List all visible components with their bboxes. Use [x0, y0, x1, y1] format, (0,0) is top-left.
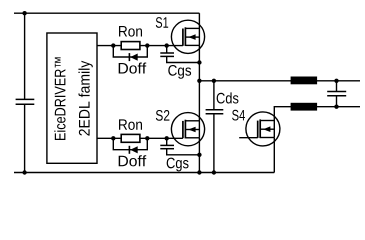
- label Doff upper: [119, 63, 147, 74]
- node Cds bottom at bottom rail: [212, 170, 216, 174]
- wire S2 source to bottom rail: [198, 138, 200, 173]
- wire S1 drain to top rail: [198, 13, 200, 28]
- node upper Ron right: [145, 43, 149, 47]
- wire upper Doff parallel loop: [113, 46, 147, 57]
- capacitor Cgs2 bottom plate: [160, 148, 174, 150]
- label Ron upper: [119, 26, 142, 37]
- inductor ferrite bead output upper: [291, 77, 318, 85]
- wire S2 drain from mid rail: [198, 81, 200, 121]
- label Doff lower: [119, 155, 147, 166]
- diode Doff upper: [129, 53, 137, 61]
- label Cds: [217, 92, 239, 103]
- node top rail / DC-link junction: [22, 11, 26, 15]
- wire S4 gate stub: [239, 137, 258, 139]
- capacitor output top plate: [327, 91, 346, 93]
- node output cap bottom: [334, 105, 338, 109]
- wire Cgs2 top stub: [166, 138, 168, 145]
- wire output cap lower stub: [336, 96, 338, 107]
- node upper Ron left: [111, 43, 115, 47]
- wire output cap upper stub: [336, 81, 338, 92]
- node bottom rail / DC-link junction: [22, 170, 26, 174]
- wire Cgs2 return to source: [167, 149, 200, 155]
- capacitor Cgs1 bottom plate: [160, 55, 174, 57]
- wire Cgs1 top stub: [166, 46, 168, 53]
- wire Cds branch upper: [213, 81, 215, 110]
- node lower Cgs tap: [165, 136, 169, 140]
- wire left DC-link branch lower: [24, 104, 26, 172]
- wire output lower rail: [291, 106, 360, 108]
- transistor S2 MOSFET: [171, 113, 204, 146]
- capacitor DC-link top plate: [16, 98, 35, 100]
- inductor ferrite bead output lower: [291, 103, 318, 111]
- transistor S1 MOSFET: [171, 20, 204, 53]
- wire mid rail (switch node): [199, 80, 360, 82]
- node Cgs1 return on S1 source: [197, 60, 201, 64]
- diode Doff lower: [129, 146, 137, 154]
- wire lower gate drive: [97, 137, 183, 139]
- capacitor Cds top plate: [206, 109, 224, 111]
- wire left DC-link branch upper: [24, 13, 26, 99]
- label S2: [156, 110, 170, 121]
- capacitor output bottom plate: [327, 95, 346, 97]
- resistor R-on upper: [121, 42, 140, 50]
- wire Cds branch lower: [213, 114, 215, 173]
- label Cgs lower: [167, 158, 189, 172]
- capacitor Cgs2 top plate: [160, 144, 174, 146]
- wire upper gate drive: [97, 45, 183, 47]
- transistor S4 MOSFET: [246, 112, 280, 146]
- node Cds top junction: [212, 79, 216, 83]
- node switch node at S1 source: [197, 79, 201, 83]
- label S4: [232, 110, 245, 121]
- capacitor DC-link bottom plate: [16, 103, 35, 105]
- wire bottom DC- rail: [14, 172, 274, 174]
- node output cap top: [334, 79, 338, 83]
- gate driver IC U1 EiceDRIVER box: [47, 33, 97, 163]
- label Cgs upper: [168, 65, 191, 79]
- wire top DC+ rail: [14, 12, 199, 14]
- wire S1 source to mid node: [198, 45, 200, 80]
- node upper Cgs tap: [165, 43, 169, 47]
- node S2 source at bottom rail: [197, 170, 201, 174]
- wire S4 source to bottom rail: [273, 138, 275, 173]
- label S1: [156, 17, 168, 28]
- capacitor Cds bottom plate: [206, 113, 224, 115]
- label U1 EiceDRIVER 2EDL family: [54, 57, 65, 140]
- wire S4 drain to output rail: [274, 107, 290, 121]
- wire lower Doff parallel loop: [113, 138, 147, 149]
- node lower Ron left: [111, 136, 115, 140]
- node Cgs2 return on S2 source: [197, 153, 201, 157]
- node lower Ron right: [145, 136, 149, 140]
- wire Cgs1 return to source: [167, 56, 200, 62]
- capacitor Cgs1 top plate: [160, 52, 174, 54]
- label Ron lower: [119, 119, 142, 130]
- resistor R-on lower: [121, 134, 140, 142]
